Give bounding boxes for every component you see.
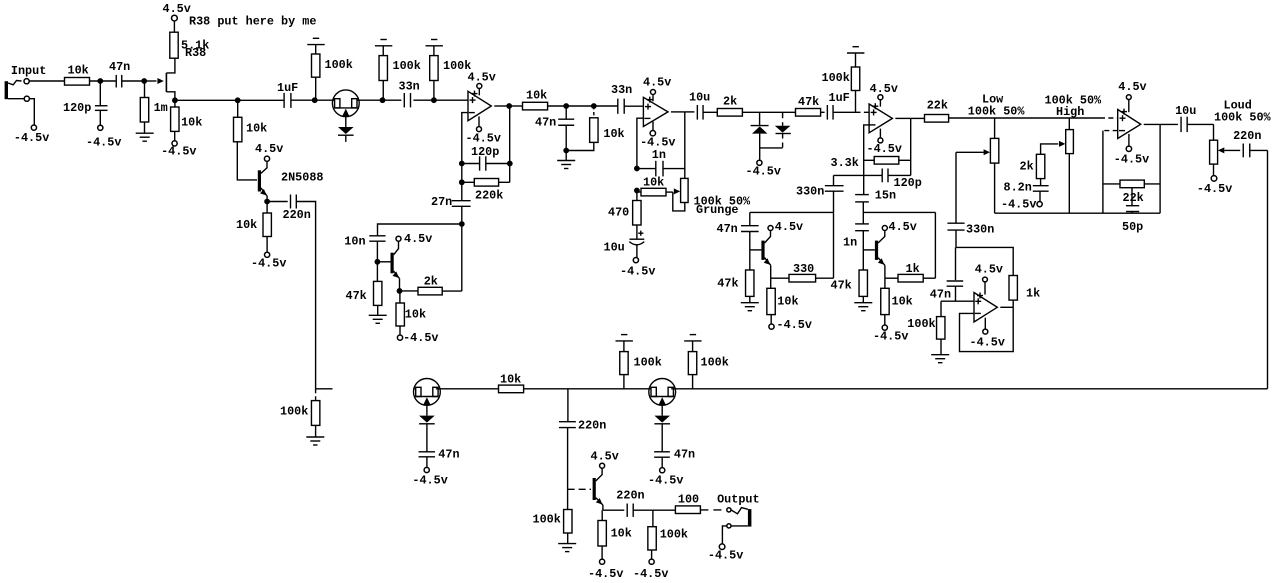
- resistor 220k (U1 fb): [462, 181, 475, 183]
- capacitor 330n (left): [833, 175, 835, 185]
- svg-text:120p: 120p: [63, 101, 91, 115]
- svg-text:100: 100: [678, 492, 699, 506]
- transistor Q5 emitter: [596, 498, 603, 505]
- svg-text:High: High: [1056, 105, 1084, 119]
- resistor 10k (input series): [65, 78, 90, 86]
- capacitor 220n (output): [626, 504, 628, 517]
- resistor 2k (tone): [1036, 154, 1044, 178]
- svg-text:4.5v: 4.5v: [1118, 80, 1146, 94]
- wire to 1k U5: [956, 247, 1013, 275]
- jack tip contact: [24, 79, 29, 84]
- ground (Q3 47k): [741, 302, 759, 304]
- svg-text:47n: 47n: [535, 116, 556, 130]
- resistor 100k (bottom 3): [692, 375, 694, 389]
- wire U5 + input: [941, 300, 974, 302]
- transistor Q4 collector: [878, 231, 885, 244]
- resistor 100k (bottom left): [315, 389, 317, 401]
- svg-text:10k: 10k: [603, 127, 624, 141]
- transistor 2N5088 emitter: [261, 188, 267, 196]
- wire bottom rail 2: [436, 388, 499, 390]
- svg-text:-4.5v: -4.5v: [648, 474, 683, 488]
- op-amp U5: [974, 293, 997, 323]
- U2 -4.5v supply: [652, 122, 654, 131]
- terminal 4.5v (Q4): [882, 226, 887, 231]
- svg-text:2k: 2k: [424, 275, 438, 289]
- U5 -4.5v supply: [984, 318, 986, 329]
- wire diode join: [760, 147, 783, 149]
- resistor 47k: [796, 109, 821, 117]
- transistor 2N5088 collector: [261, 162, 267, 174]
- wire right side down: [1267, 150, 1269, 388]
- transistor Q2 collector: [394, 241, 399, 255]
- U4 4.5v supply: [1128, 99, 1130, 112]
- node dot 47n top: [563, 103, 569, 109]
- terminal -4.5v (Q5 10k): [600, 559, 605, 564]
- svg-text:-4.5v: -4.5v: [161, 145, 196, 159]
- High pot bottom: [1068, 154, 1070, 214]
- resistor 100k (bias 3): [433, 81, 435, 101]
- node B junction dot: [141, 78, 147, 84]
- resistor 10k (Q3 emitter): [770, 278, 772, 288]
- svg-text:10k: 10k: [777, 294, 798, 308]
- node dot 120p left: [459, 161, 465, 167]
- node D dot: [235, 97, 241, 103]
- capacitor 47n (input): [115, 75, 117, 88]
- resistor 10k (bottom): [499, 385, 524, 393]
- node dot 27n bottom: [459, 221, 465, 227]
- wire to 2N5088 base: [237, 142, 257, 180]
- svg-text:47k: 47k: [798, 95, 819, 109]
- op-amp U2: [643, 97, 668, 126]
- U4 V+ marker: [1121, 111, 1127, 113]
- diode D2 lead: [782, 112, 784, 125]
- capacitor 220n (feedback): [290, 195, 292, 209]
- node dot 47n bottom: [563, 148, 569, 154]
- resistor 100k (bias 1): [315, 77, 317, 100]
- svg-text:-4.5v: -4.5v: [746, 165, 781, 179]
- capacitor 120p: [99, 81, 101, 106]
- ground (47n): [565, 151, 567, 161]
- svg-text:10n: 10n: [344, 234, 365, 248]
- node dot 10k top: [591, 103, 597, 109]
- capacitor 10n: [369, 235, 385, 237]
- svg-text:10k: 10k: [526, 89, 547, 103]
- terminal -4.5v (2N5088): [265, 252, 270, 257]
- capacitor 1n (U2 fb): [637, 168, 656, 170]
- resistor 1m: [144, 81, 146, 98]
- resistor 22k (U3 out): [911, 117, 925, 119]
- svg-text:47k: 47k: [717, 276, 738, 290]
- transistor Q1 bar: [165, 73, 167, 92]
- transistor Q1 source lead: [166, 92, 175, 101]
- svg-text:1n: 1n: [843, 235, 857, 249]
- svg-text:-4.5v: -4.5v: [251, 257, 286, 271]
- wire bottom rail left: [316, 388, 333, 390]
- transistor Q1 gate arrow: [144, 80, 156, 82]
- wire jack tip to R 10k: [29, 80, 64, 82]
- svg-text:1k: 1k: [1026, 286, 1040, 300]
- pass transistor (circle) T2: [414, 379, 441, 406]
- output jack tip spring: [731, 508, 748, 514]
- terminal -4.5v (T3): [660, 468, 665, 473]
- svg-text:27n: 27n: [431, 195, 452, 209]
- svg-text:-4.5v: -4.5v: [633, 567, 668, 581]
- svg-text:-4.5v: -4.5v: [412, 474, 447, 488]
- terminal -4.5v (Q2): [397, 335, 402, 340]
- node F dot: [312, 97, 318, 103]
- wire 1k up: [934, 212, 936, 278]
- svg-text:47n: 47n: [674, 448, 695, 462]
- svg-text:22k: 22k: [927, 98, 948, 112]
- svg-text:1uF: 1uF: [277, 81, 298, 95]
- wire U4 output: [1144, 123, 1160, 125]
- ground up (bottom 3): [690, 334, 696, 336]
- resistor 100 (output): [653, 509, 676, 511]
- resistor 1k (U5): [1009, 276, 1017, 301]
- svg-text:10k: 10k: [181, 116, 202, 130]
- U3 noninverting input marker: [871, 111, 877, 113]
- U3 inverting input marker: [870, 124, 876, 126]
- svg-text:50p: 50p: [1122, 220, 1143, 234]
- U1 noninverting input marker: [470, 99, 476, 101]
- svg-text:15n: 15n: [875, 188, 896, 202]
- svg-text:47n: 47n: [438, 448, 459, 462]
- node C dot (Q1 source): [172, 97, 178, 103]
- wire U1 feedback left: [462, 113, 468, 164]
- wire 47n to gate node: [122, 80, 144, 82]
- svg-text:10k: 10k: [68, 64, 89, 78]
- svg-text:220n: 220n: [616, 488, 644, 502]
- U2 4.5v supply: [652, 94, 654, 101]
- capacitor 220n (Loud): [1242, 144, 1244, 158]
- U3 V+ marker: [872, 105, 878, 107]
- capacitor 15n: [862, 194, 864, 196]
- wire U4 out down: [1159, 124, 1161, 213]
- svg-text:100k: 100k: [660, 527, 688, 541]
- node dot Q2 base: [375, 259, 381, 265]
- svg-text:4.5v: 4.5v: [870, 82, 898, 96]
- svg-text:220n: 220n: [1233, 129, 1261, 143]
- wire U2 output: [671, 111, 685, 113]
- svg-text:Grunge: Grunge: [696, 203, 738, 217]
- svg-text:-4.5v: -4.5v: [620, 265, 655, 279]
- U3 -4.5v supply: [879, 129, 881, 138]
- svg-text:220n: 220n: [578, 418, 606, 432]
- svg-text:220k: 220k: [475, 188, 503, 202]
- resistor 470: [636, 191, 638, 201]
- wire jack sleeve: [8, 98, 24, 100]
- svg-text:-4.5v: -4.5v: [1114, 153, 1149, 167]
- resistor 47k (Q4 base): [862, 250, 864, 270]
- svg-text:100k: 100k: [907, 317, 935, 331]
- potentiometer Grunge 100k body: [681, 178, 689, 202]
- diode D1 lead: [759, 112, 761, 125]
- svg-text:100k: 100k: [701, 355, 729, 369]
- ground up (U3 bias): [853, 46, 859, 48]
- U4 inverting input marker: [1119, 130, 1125, 132]
- wire U3out down: [910, 118, 912, 175]
- transistor Q2 base wire: [377, 261, 390, 263]
- U5 4.5v supply: [984, 282, 986, 295]
- resistor 100k (output): [652, 510, 654, 527]
- U1 4.5v supply: [478, 88, 480, 95]
- wire sleeve to -4.5v: [29, 99, 34, 125]
- svg-text:100k: 100k: [822, 71, 850, 85]
- resistor 47k (Q2 base): [376, 262, 378, 282]
- resistor 100k (U3 bias): [855, 91, 857, 113]
- capacitor 1uF (2): [826, 105, 828, 120]
- wire to output jack: [700, 509, 726, 511]
- svg-text:47k: 47k: [831, 278, 852, 292]
- resistor 10k (2N5088 emitter): [266, 202, 268, 214]
- svg-text:33n: 33n: [611, 83, 632, 97]
- transistor Q5 collector: [596, 468, 602, 481]
- svg-text:100k 50%: 100k 50%: [1214, 110, 1272, 124]
- Low pot bottom: [994, 163, 996, 213]
- svg-text:10k: 10k: [643, 175, 664, 189]
- wire U2 fb left: [637, 118, 644, 168]
- capacitor 10u (coupling): [685, 111, 695, 113]
- terminal -4.5v (diodes): [759, 148, 761, 160]
- capacitor 220n (Q5 base): [567, 389, 569, 422]
- capacitor 10u electrolytic (U2 fb): [638, 232, 643, 234]
- node dot 120p right: [507, 161, 513, 167]
- svg-text:10k: 10k: [236, 218, 257, 232]
- wire fb down to 2k: [461, 224, 463, 291]
- svg-text:-4.5v: -4.5v: [588, 567, 623, 581]
- resistor 10k (Q2 emitter): [399, 291, 401, 303]
- resistor 10k (to Q2 base): [237, 100, 239, 117]
- svg-text:4.5v: 4.5v: [255, 142, 283, 156]
- svg-text:4.5v: 4.5v: [163, 2, 191, 16]
- capacitor 1uF: [283, 93, 285, 108]
- Grunge bottom tie: [673, 192, 685, 211]
- svg-text:470: 470: [608, 206, 629, 220]
- wire U2out down to pot: [684, 112, 686, 178]
- transistor Q4 bar: [875, 241, 878, 260]
- Low pot wiper: [956, 151, 984, 153]
- High pot wiper: [1041, 144, 1059, 154]
- wire R to node A: [90, 80, 116, 82]
- capacitor 33n (1): [383, 99, 402, 101]
- resistor 47k (Q3 base): [749, 250, 751, 270]
- U4 noninverting input marker: [1120, 117, 1126, 119]
- capacitor 47n (T2): [426, 424, 428, 452]
- terminal -4.5v (out 100k): [649, 559, 654, 564]
- svg-text:-4.5v: -4.5v: [777, 318, 812, 332]
- resistor 22k (U4 fb): [1103, 183, 1120, 185]
- capacitor 47n (Q3): [749, 212, 751, 225]
- U5 noninverting input marker: [975, 300, 981, 302]
- terminal -4.5v (output): [719, 544, 725, 550]
- wire node F to pass transistor: [315, 99, 333, 101]
- terminal -4.5v (Q3): [769, 324, 774, 329]
- output jack sleeve contact: [727, 524, 731, 528]
- resistor 2k: [717, 109, 742, 117]
- potentiometer Low 100k body: [994, 118, 996, 138]
- node dot 10k fb left: [634, 188, 640, 194]
- wire bottom rail 4: [671, 388, 1267, 390]
- wire U3 fb left: [864, 125, 869, 195]
- resistor 1k: [885, 277, 898, 279]
- svg-text:10u: 10u: [604, 240, 625, 254]
- transistor Q2 emitter: [394, 271, 400, 279]
- wire rail B1: [175, 99, 238, 101]
- wire node E to 220n: [267, 201, 288, 203]
- U5 feedback loop: [960, 307, 1014, 351]
- op-amp U1: [468, 91, 491, 120]
- svg-text:4.5v: 4.5v: [643, 75, 671, 89]
- capacitor 1n (Q4): [862, 212, 864, 224]
- svg-text:3.3k: 3.3k: [831, 156, 859, 170]
- terminal -4.5v (input sleeve): [31, 125, 36, 130]
- wire 1uF to node F: [291, 99, 315, 101]
- svg-text:1k: 1k: [906, 262, 920, 276]
- svg-text:4.5v: 4.5v: [468, 70, 496, 84]
- ground (1m): [136, 132, 154, 134]
- transistor Q5 bar: [593, 478, 596, 500]
- ground (Q5 base 100k): [558, 543, 576, 545]
- resistor 100k (U5 gnd): [940, 301, 942, 316]
- Loud pot bottom: [1213, 164, 1215, 176]
- capacitor 47n (shunt): [565, 106, 567, 119]
- svg-text:100k: 100k: [393, 59, 421, 73]
- transistor Q1 drain lead: [166, 58, 175, 73]
- svg-text:120p: 120p: [471, 145, 499, 159]
- wire rail C: [566, 105, 594, 107]
- svg-text:47n: 47n: [930, 287, 951, 301]
- svg-text:-4.5v: -4.5v: [867, 142, 902, 156]
- ground (U5 100k): [931, 354, 949, 356]
- capacitor 330n (2): [955, 152, 957, 223]
- svg-text:-4.5v: -4.5v: [970, 335, 1005, 349]
- output jack tip contact: [727, 508, 731, 512]
- output jack J2: [748, 509, 752, 526]
- resistor 10k (shunt): [593, 106, 595, 118]
- wire into U3 +: [856, 111, 870, 113]
- svg-text:R38 put here by me: R38 put here by me: [189, 15, 316, 29]
- U5 V+ marker: [977, 295, 983, 297]
- terminal 4.5v (Q2): [396, 236, 401, 241]
- svg-text:-4.5v: -4.5v: [1001, 197, 1036, 211]
- wire tone rail: [949, 117, 1100, 119]
- capacitor 27n: [461, 164, 463, 201]
- U3 4.5v supply: [879, 100, 881, 107]
- svg-text:10k: 10k: [246, 122, 267, 136]
- terminal 4.5v (R38): [172, 15, 178, 21]
- transistor 2N5088 bar: [258, 170, 261, 191]
- wire to node G: [359, 99, 382, 101]
- capacitor 50p: [1131, 188, 1133, 206]
- svg-text:22k: 22k: [1123, 191, 1144, 205]
- svg-text:2N5088: 2N5088: [281, 171, 323, 185]
- svg-text:2k: 2k: [1020, 159, 1034, 173]
- wire Q4 cell top: [863, 211, 935, 213]
- node E dot (2N5088 emitter): [264, 199, 270, 205]
- terminal -4.5v (120p): [98, 125, 103, 130]
- svg-text:4.5v: 4.5v: [591, 450, 619, 464]
- ground (Q2 47k): [369, 314, 387, 316]
- svg-text:4.5v: 4.5v: [975, 262, 1003, 276]
- svg-text:330n: 330n: [796, 184, 824, 198]
- capacitor 33n (2): [594, 105, 618, 107]
- svg-text:330n: 330n: [966, 223, 994, 237]
- wire rail B2: [238, 99, 284, 101]
- ground (Q4 47k): [854, 302, 872, 304]
- terminal -4.5v (Q4): [882, 325, 887, 330]
- wire jack sleeve bar: [731, 525, 748, 527]
- U5 inverting input marker: [975, 312, 981, 314]
- potentiometer High 100k body: [1068, 118, 1070, 130]
- svg-text:10k: 10k: [405, 307, 426, 321]
- ground up (bias 3): [431, 39, 437, 41]
- op-amp U3: [869, 104, 892, 133]
- U1 inverting input marker: [469, 112, 475, 114]
- svg-text:10k: 10k: [611, 526, 632, 540]
- svg-text:-4.5v: -4.5v: [403, 331, 438, 345]
- svg-text:100k: 100k: [325, 58, 353, 72]
- svg-text:-4.5v: -4.5v: [466, 131, 501, 145]
- resistor 100k (bias 2): [382, 81, 384, 101]
- node dot Q2 emitter: [397, 288, 403, 294]
- terminal 4.5v (2N5088): [264, 156, 269, 161]
- svg-text:47n: 47n: [717, 222, 738, 236]
- transistor Q4 base wire: [863, 249, 875, 251]
- transistor Q3 collector: [765, 231, 771, 244]
- svg-text:-4.5v: -4.5v: [1197, 182, 1232, 196]
- svg-text:10k: 10k: [892, 294, 913, 308]
- resistor 100k (Q5 base): [567, 489, 569, 509]
- terminal -4.5v (Q1): [172, 141, 177, 146]
- svg-text:330: 330: [793, 262, 814, 276]
- resistor 3.3k (U3 fb): [864, 159, 875, 161]
- resistor 2k (Q2): [400, 290, 419, 292]
- ground up (bottom 2): [621, 334, 627, 336]
- wire U5 output: [1000, 306, 1013, 308]
- U4 fb left wire: [1103, 130, 1118, 132]
- svg-text:-4.5v: -4.5v: [873, 329, 908, 343]
- U1 -4.5v supply: [478, 116, 480, 126]
- wire Q3 cell top: [750, 211, 834, 213]
- svg-text:10u: 10u: [689, 90, 710, 104]
- svg-text:-4.5v: -4.5v: [708, 548, 743, 562]
- svg-text:100k: 100k: [280, 405, 308, 419]
- U2 inverting input marker: [644, 117, 650, 119]
- resistor 10k (Q4 emitter): [884, 278, 886, 288]
- svg-text:120p: 120p: [894, 176, 922, 190]
- svg-text:47n: 47n: [109, 60, 130, 74]
- resistor 10k (Q5): [601, 510, 603, 520]
- pass transistor (circle) T1: [332, 90, 359, 117]
- svg-text:100k: 100k: [634, 355, 662, 369]
- svg-text:1n: 1n: [652, 148, 666, 162]
- input jack J1: [5, 81, 8, 99]
- svg-text:1uF: 1uF: [829, 91, 850, 105]
- svg-text:10u: 10u: [1175, 104, 1196, 118]
- svg-text:-4.5v: -4.5v: [14, 131, 49, 145]
- jack sleeve contact: [24, 96, 29, 101]
- svg-text:8.2n: 8.2n: [1004, 181, 1032, 195]
- U2 V+ marker: [647, 99, 653, 101]
- svg-text:2k: 2k: [723, 94, 737, 108]
- terminal -4.5v (8.2n): [1037, 202, 1042, 207]
- svg-text:Input: Input: [11, 64, 46, 78]
- node U1out dot: [506, 103, 512, 109]
- transistor Q3 emitter: [765, 258, 771, 266]
- node A junction dot: [97, 78, 103, 84]
- svg-text:-4.5v: -4.5v: [86, 136, 121, 150]
- diode D2 (down): [775, 126, 791, 133]
